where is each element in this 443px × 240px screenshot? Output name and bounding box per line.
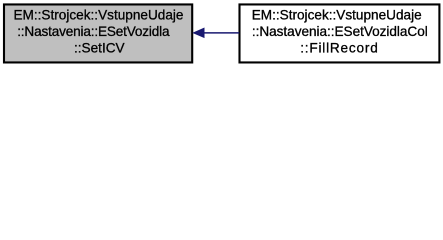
svg-text:::Nastavenia::ESetVozidlaCol: ::Nastavenia::ESetVozidlaCol bbox=[252, 24, 428, 39]
svg-text:::SetICV: ::SetICV bbox=[74, 41, 125, 56]
svg-text:::Nastavenia::ESetVozidla: ::Nastavenia::ESetVozidla bbox=[17, 24, 170, 39]
svg-text:EM::Strojcek::VstupneUdaje: EM::Strojcek::VstupneUdaje bbox=[252, 8, 422, 23]
node FillRecord (caller) bbox=[240, 4, 440, 62]
wire: call edge FillRecord -> SetICV bbox=[193, 28, 239, 37]
arrowhead bbox=[193, 28, 204, 37]
svg-text:::FillRecord: ::FillRecord bbox=[300, 41, 378, 56]
svg-text:EM::Strojcek::VstupneUdaje: EM::Strojcek::VstupneUdaje bbox=[13, 8, 183, 23]
node SetICV (current node, grey) bbox=[4, 4, 192, 62]
